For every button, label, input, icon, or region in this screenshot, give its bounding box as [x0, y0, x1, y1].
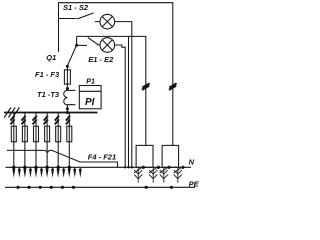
- svg-text:T1 -T3: T1 -T3: [37, 90, 60, 99]
- svg-text:F4 - F21: F4 - F21: [88, 152, 116, 161]
- svg-text:E1 - E2: E1 - E2: [88, 55, 114, 64]
- svg-text:F1 - F3: F1 - F3: [35, 70, 60, 79]
- svg-text:PI: PI: [85, 97, 95, 108]
- svg-text:N: N: [189, 157, 195, 166]
- svg-text:PE: PE: [189, 179, 200, 188]
- svg-text:P1: P1: [86, 78, 95, 85]
- svg-text:Q1: Q1: [46, 53, 56, 62]
- svg-text:S1 - S2: S1 - S2: [63, 3, 89, 12]
